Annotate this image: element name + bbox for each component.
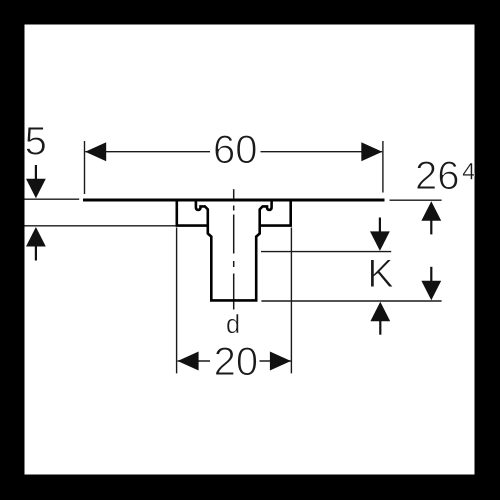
K down arrow — [370, 231, 390, 251]
svg-text:60: 60 — [213, 128, 258, 172]
svg-text:5: 5 — [25, 120, 47, 164]
60 left extension — [84, 141, 86, 194]
svg-text:26: 26 — [415, 154, 460, 198]
60 dimension line — [85, 151, 210, 153]
flange-bottom left extension — [25, 225, 177, 227]
5 down arrow tail — [35, 165, 37, 179]
K down arrow tail — [379, 218, 381, 232]
26 up arrow — [421, 201, 441, 221]
plate (top flat sheet) — [83, 199, 385, 202]
arrows — [26, 142, 441, 370]
flange right wall + bottom — [260, 200, 291, 226]
arrow tails — [36, 165, 431, 335]
thin extension lines — [25, 141, 442, 373]
26 down arrow — [421, 281, 441, 301]
bottom reference line — [261, 300, 441, 302]
26 down arrow tail — [430, 267, 432, 281]
5 up arrow tail — [35, 246, 37, 261]
plate-top right extension — [390, 199, 442, 201]
K up arrow — [370, 302, 390, 322]
flange left wall + bottom — [177, 200, 208, 226]
60 right arrow — [361, 142, 382, 161]
20 left arrow — [178, 352, 199, 371]
60 left arrow — [85, 142, 106, 161]
plate-top left extension — [25, 198, 80, 200]
60 right extension — [382, 141, 384, 193]
svg-text:4: 4 — [462, 158, 475, 185]
K top line — [261, 251, 391, 253]
K up arrow tail — [379, 321, 381, 335]
svg-text:d: d — [226, 311, 240, 339]
26 up arrow tail — [430, 221, 432, 235]
svg-text:K: K — [367, 252, 394, 296]
20 dimension line — [178, 360, 210, 362]
svg-text:20: 20 — [214, 340, 259, 384]
socket body with snap hooks — [196, 201, 272, 301]
centerline (dash-dot) — [233, 189, 235, 309]
5 up arrow — [26, 227, 46, 247]
20 right arrow — [270, 352, 291, 371]
20 left extension — [176, 228, 178, 374]
20 right extension — [290, 228, 292, 374]
5 down arrow — [26, 179, 46, 199]
